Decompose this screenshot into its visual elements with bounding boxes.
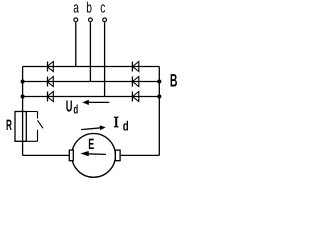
diode right row 1 — [132, 62, 138, 72]
label Id — [114, 117, 119, 128]
junction left row 3 — [21, 94, 25, 98]
brush right — [115, 150, 120, 161]
svg-text:R: R — [6, 117, 12, 134]
svg-text:E: E — [88, 136, 94, 153]
junction right row 3 — [157, 94, 161, 98]
diode left row 2 — [47, 77, 53, 87]
terminal a — [74, 18, 78, 22]
svg-text:d: d — [73, 103, 78, 117]
junction left row 2 — [21, 79, 25, 83]
resistor R — [15, 112, 26, 142]
diode left row 1 — [47, 62, 53, 72]
terminal b — [89, 18, 93, 22]
bypass contact — [26, 112, 43, 142]
svg-text:b: b — [86, 0, 92, 17]
wire phase b — [89, 22, 91, 81]
diode right row 2 — [132, 77, 138, 87]
wire row 3 — [23, 96, 160, 98]
motor armature circle — [72, 134, 116, 178]
svg-text:c: c — [100, 0, 105, 17]
svg-text:a: a — [73, 0, 79, 17]
wire row 1 — [23, 66, 160, 68]
svg-text:d: d — [123, 119, 129, 134]
junction right row 2 — [157, 79, 161, 83]
diode left row 3 — [47, 92, 53, 102]
diode right row 3 — [132, 92, 138, 102]
wire phase a — [75, 22, 77, 66]
wire phase c — [104, 22, 106, 96]
arrow Ud — [82, 100, 109, 105]
arrow Id — [81, 125, 106, 130]
terminal c — [103, 18, 107, 22]
wire bottom right — [120, 154, 159, 156]
wire right rail — [158, 67, 160, 156]
svg-text:U: U — [66, 99, 73, 116]
brush left — [69, 150, 73, 161]
svg-text:B: B — [170, 70, 178, 90]
wire row 2 — [23, 81, 160, 83]
wire bottom left — [23, 154, 70, 156]
arrow E (emf) — [80, 151, 106, 156]
wire left rail — [22, 67, 24, 156]
